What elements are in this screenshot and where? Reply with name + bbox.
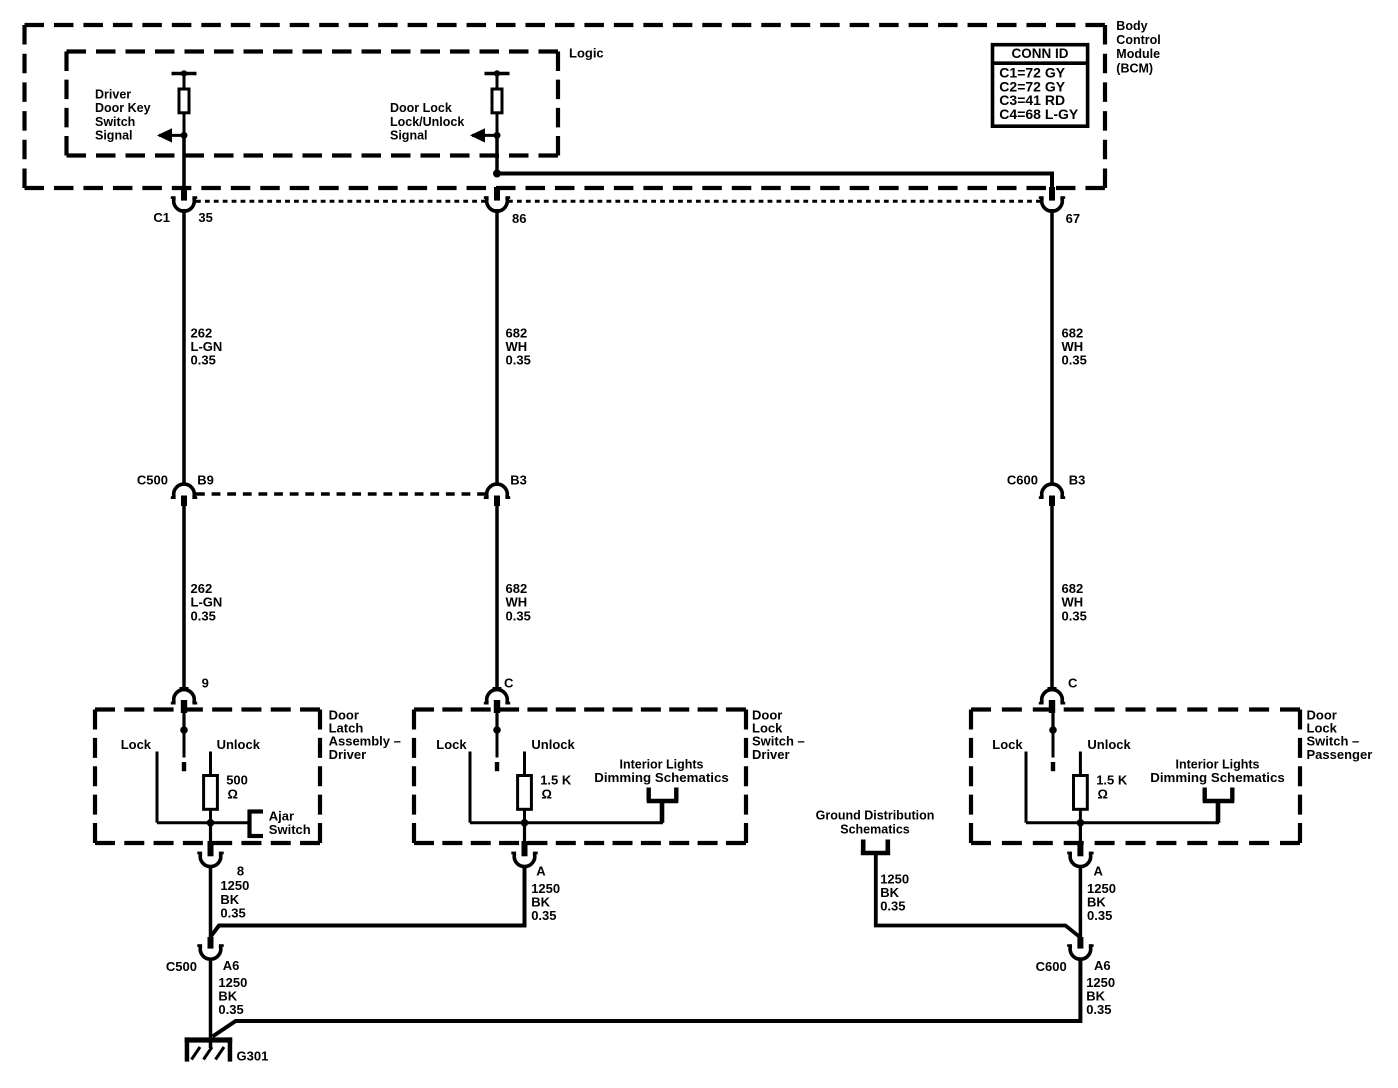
svg-text:Signal: Signal [390, 128, 428, 142]
svg-text:Logic: Logic [569, 46, 604, 61]
svg-text:C: C [504, 675, 514, 690]
svg-text:Body: Body [1116, 19, 1147, 33]
svg-text:Unlock: Unlock [531, 737, 575, 752]
svg-text:Driver: Driver [95, 88, 131, 102]
svg-text:C600: C600 [1007, 472, 1038, 487]
svg-text:1.5 K: 1.5 K [540, 772, 572, 787]
svg-text:Control: Control [1116, 33, 1160, 47]
svg-text:Ω: Ω [542, 787, 552, 802]
svg-text:Signal: Signal [95, 128, 133, 142]
svg-text:Switch: Switch [269, 822, 311, 837]
svg-text:A: A [536, 864, 546, 879]
svg-text:C600: C600 [1036, 959, 1067, 974]
svg-text:Door Lock: Door Lock [390, 101, 452, 115]
svg-text:0.35: 0.35 [220, 906, 245, 921]
svg-text:86: 86 [512, 211, 526, 226]
svg-text:C1: C1 [153, 210, 170, 225]
svg-text:0.35: 0.35 [1087, 908, 1112, 923]
svg-text:C: C [1068, 675, 1078, 690]
svg-text:Lock: Lock [121, 737, 152, 752]
svg-text:Module: Module [1116, 47, 1160, 61]
svg-text:8: 8 [237, 864, 244, 879]
svg-text:A6: A6 [1094, 958, 1111, 973]
svg-text:Ω: Ω [228, 787, 238, 802]
svg-text:Lock/Unlock: Lock/Unlock [390, 115, 464, 129]
svg-text:Ground Distribution: Ground Distribution [816, 808, 935, 822]
svg-text:0.35: 0.35 [506, 353, 531, 368]
svg-text:A6: A6 [223, 958, 240, 973]
svg-text:500: 500 [226, 772, 248, 787]
svg-text:0.35: 0.35 [191, 353, 216, 368]
svg-text:Lock: Lock [992, 737, 1023, 752]
svg-text:Unlock: Unlock [1087, 737, 1131, 752]
svg-text:Dimming Schematics: Dimming Schematics [594, 770, 729, 785]
svg-text:Schematics: Schematics [840, 823, 910, 837]
svg-text:CONN ID: CONN ID [1012, 46, 1069, 61]
svg-text:Passenger: Passenger [1307, 747, 1373, 762]
svg-text:Lock: Lock [436, 737, 467, 752]
svg-text:G301: G301 [237, 1049, 269, 1064]
svg-text:Driver: Driver [329, 747, 367, 762]
svg-text:0.35: 0.35 [531, 908, 556, 923]
svg-text:(BCM): (BCM) [1116, 61, 1153, 75]
svg-text:1.5 K: 1.5 K [1096, 772, 1128, 787]
svg-text:Switch: Switch [95, 115, 135, 129]
svg-text:Ω: Ω [1098, 787, 1108, 802]
svg-text:0.35: 0.35 [191, 608, 216, 623]
svg-text:0.35: 0.35 [1062, 608, 1087, 623]
svg-text:0.35: 0.35 [1062, 353, 1087, 368]
svg-text:C500: C500 [137, 472, 168, 487]
svg-text:0.35: 0.35 [880, 899, 905, 914]
svg-text:A: A [1094, 864, 1104, 879]
svg-text:Dimming Schematics: Dimming Schematics [1150, 770, 1285, 785]
svg-text:Door Key: Door Key [95, 101, 151, 115]
svg-text:B3: B3 [1069, 472, 1086, 487]
svg-text:C500: C500 [166, 959, 197, 974]
svg-text:9: 9 [202, 675, 209, 690]
svg-text:Unlock: Unlock [217, 737, 261, 752]
svg-text:0.35: 0.35 [218, 1002, 243, 1017]
svg-text:B3: B3 [510, 472, 527, 487]
svg-text:35: 35 [198, 210, 212, 225]
svg-text:B9: B9 [197, 472, 214, 487]
svg-text:Driver: Driver [752, 747, 790, 762]
svg-text:0.35: 0.35 [1086, 1002, 1111, 1017]
svg-text:67: 67 [1066, 211, 1080, 226]
svg-text:0.35: 0.35 [506, 608, 531, 623]
svg-text:C4=68 L-GY: C4=68 L-GY [999, 106, 1079, 122]
